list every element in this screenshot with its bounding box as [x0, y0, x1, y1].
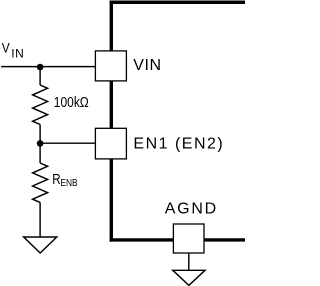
pin EN1 box — [95, 128, 126, 159]
resistor 100kOhm — [33, 85, 48, 125]
resistor RENB — [33, 163, 48, 202]
ground (left) — [24, 237, 57, 253]
net label VIN — [2, 40, 25, 61]
value label RENB — [52, 171, 77, 190]
svg-text:V: V — [2, 40, 10, 56]
wire RENB to ground — [39, 202, 41, 237]
svg-text:VIN: VIN — [133, 57, 161, 74]
wire resistor 100k to node B — [39, 125, 41, 144]
junction node A — [37, 64, 44, 71]
pin VIN box — [95, 51, 126, 81]
svg-text:R: R — [52, 171, 60, 188]
IC outline left edge (thick vertical bus) — [110, 1, 113, 242]
pin label VIN — [133, 57, 161, 74]
pin label AGND — [165, 201, 218, 218]
svg-text:ENB: ENB — [60, 177, 77, 189]
pin AGND box — [173, 224, 204, 253]
svg-text:IN: IN — [11, 47, 24, 61]
wire node B to EN1 pin — [40, 142, 95, 144]
wire VIN input — [1, 66, 95, 68]
pin label EN1 (EN2) — [133, 135, 224, 152]
wire node A to resistor 100k — [39, 67, 41, 85]
svg-text:100kΩ: 100kΩ — [54, 94, 89, 111]
svg-text:EN1 (EN2): EN1 (EN2) — [133, 135, 224, 152]
junction node B — [37, 140, 44, 147]
value label 100kOhm — [54, 94, 89, 111]
svg-text:AGND: AGND — [165, 201, 218, 218]
ground (AGND) — [173, 270, 205, 285]
wire node B to resistor RENB — [39, 143, 41, 163]
wire AGND pin to ground — [188, 253, 190, 270]
IC outline top edge — [110, 1, 245, 4]
IC outline bottom edge — [110, 238, 245, 241]
